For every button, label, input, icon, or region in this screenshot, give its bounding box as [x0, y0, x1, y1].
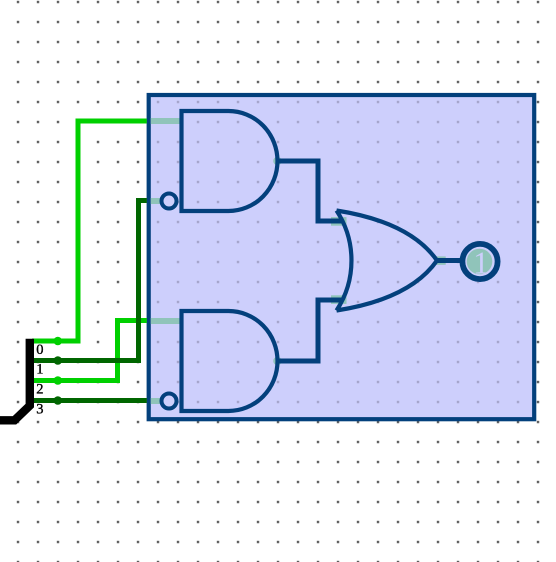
wire bit1 (low, dark green) bus tap to top AND inverted input B — [32, 201, 147, 361]
bus splitter S1 — [0, 339, 30, 421]
junction dot bit1 — [54, 356, 63, 365]
svg-text:1: 1 — [473, 246, 489, 281]
embedded circuit box U1 — [149, 95, 535, 419]
svg-text:0: 0 — [36, 342, 43, 358]
faded wire inside box to bottom AND inverted input B — [151, 398, 161, 404]
AND gate G1 (top) — [182, 111, 278, 211]
OR gate G3 — [337, 211, 438, 311]
pin dot top AND output — [273, 157, 282, 166]
faded wire inside box to bottom AND input A — [151, 318, 180, 324]
output pin O1 (value 1) — [462, 244, 497, 279]
junction dot bit3 — [54, 396, 63, 405]
wire bit2 (high, green) bus tap to bottom AND input A — [32, 321, 147, 381]
wire top AND output to OR input A — [278, 161, 343, 221]
wire OR output to output pin — [437, 258, 460, 263]
svg-text:2: 2 — [36, 382, 43, 398]
svg-text:1: 1 — [36, 362, 43, 378]
pin dot OR input A — [331, 217, 347, 226]
faded wire inside box to top AND input A — [151, 118, 180, 124]
junction dot bit0 — [54, 337, 63, 346]
inversion bubble on G1 input B — [162, 194, 177, 209]
AND gate G2 (bottom) — [182, 311, 278, 411]
pin dot bottom AND output — [273, 357, 282, 366]
wire bottom AND output to OR input B — [278, 300, 343, 361]
pin dot OR output — [436, 256, 446, 264]
svg-text:3: 3 — [36, 402, 43, 418]
wire bit3 (low, dark green) bus tap to bottom AND inverted input B — [32, 398, 147, 403]
inversion bubble on G2 input B — [162, 394, 177, 409]
pin dot OR input B — [331, 295, 347, 304]
junction dot bit2 — [54, 376, 63, 385]
faded wire inside box to top AND inverted input B — [151, 198, 161, 204]
wire bit0 (high, green) bus tap to top AND input A — [32, 121, 147, 341]
